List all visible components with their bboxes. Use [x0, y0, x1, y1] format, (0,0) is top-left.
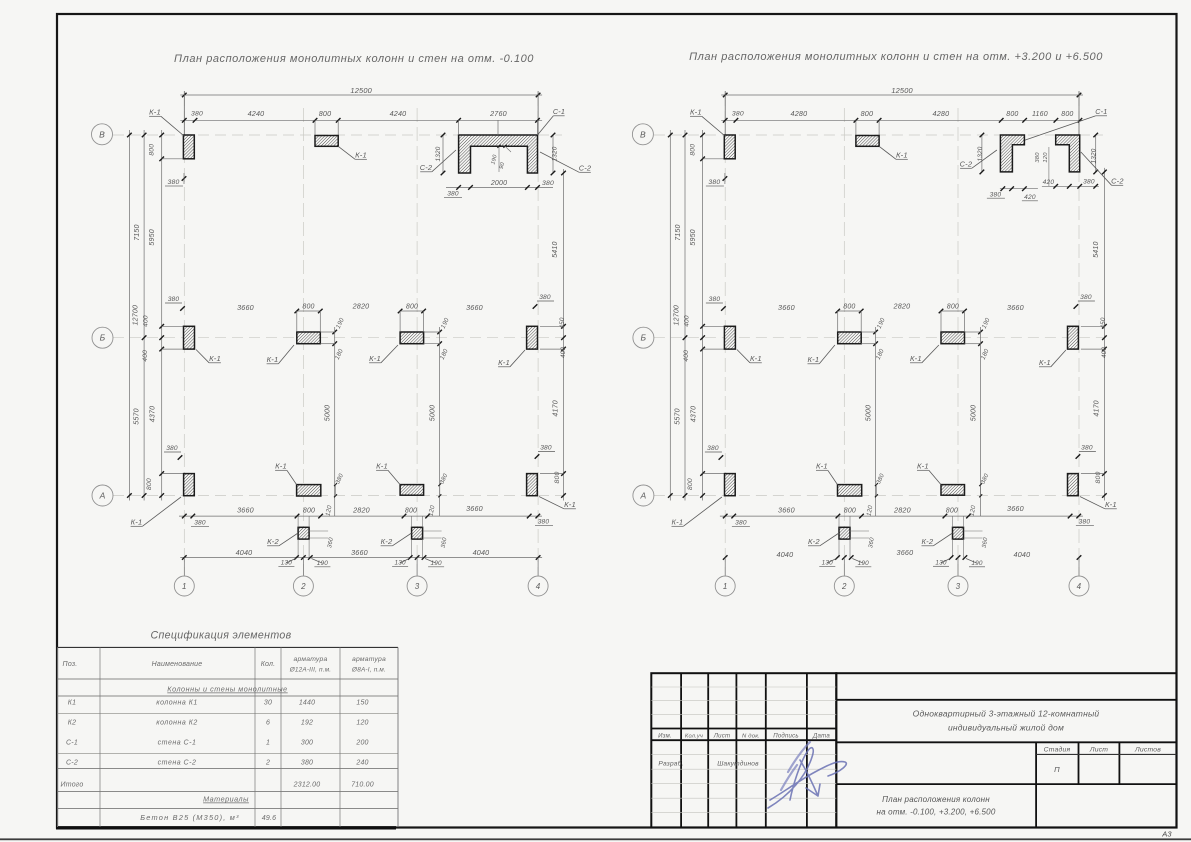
svg-text:380: 380 — [707, 445, 719, 452]
svg-text:1440: 1440 — [299, 700, 315, 707]
svg-text:Кол.: Кол. — [261, 661, 276, 668]
svg-text:800: 800 — [406, 304, 418, 311]
svg-text:2312.00: 2312.00 — [293, 782, 321, 789]
svg-text:1320: 1320 — [552, 146, 559, 161]
svg-text:1320: 1320 — [435, 146, 442, 161]
svg-text:4: 4 — [536, 582, 541, 591]
svg-text:3660: 3660 — [351, 548, 368, 557]
svg-text:450: 450 — [1100, 317, 1107, 329]
svg-text:5000: 5000 — [325, 405, 332, 421]
svg-text:Одноквартирный 3-этажный 12-ко: Одноквартирный 3-этажный 12-комнатный — [913, 709, 1100, 719]
svg-text:1: 1 — [266, 740, 270, 747]
svg-text:380: 380 — [1081, 445, 1093, 452]
svg-text:индивидуальный жилой дом: индивидуальный жилой дом — [948, 723, 1064, 733]
svg-text:на отм. -0.100, +3.200, +6.500: на отм. -0.100, +3.200, +6.500 — [877, 808, 996, 817]
svg-text:5570: 5570 — [134, 408, 141, 424]
svg-text:4240: 4240 — [248, 109, 265, 118]
svg-text:Дата: Дата — [812, 733, 830, 740]
svg-text:А3: А3 — [1161, 830, 1172, 839]
svg-text:400: 400 — [560, 347, 567, 359]
svg-text:колонна К1: колонна К1 — [156, 700, 197, 707]
svg-text:К-2: К-2 — [921, 537, 933, 546]
svg-text:3660: 3660 — [237, 506, 254, 515]
svg-text:800: 800 — [302, 304, 314, 311]
svg-text:710.00: 710.00 — [351, 782, 374, 789]
svg-text:С-2: С-2 — [420, 163, 433, 172]
svg-text:800: 800 — [687, 478, 694, 490]
svg-text:С-2: С-2 — [960, 160, 973, 169]
svg-text:4040: 4040 — [1014, 550, 1031, 559]
svg-text:4040: 4040 — [777, 550, 794, 559]
svg-text:5410: 5410 — [552, 241, 559, 257]
svg-text:380: 380 — [447, 191, 459, 198]
svg-text:400: 400 — [142, 350, 149, 362]
svg-text:3660: 3660 — [466, 504, 483, 513]
svg-text:1: 1 — [182, 582, 187, 591]
svg-text:3660: 3660 — [778, 303, 795, 312]
svg-text:800: 800 — [405, 508, 417, 515]
svg-text:К-2: К-2 — [381, 537, 393, 546]
svg-text:190: 190 — [317, 560, 329, 567]
svg-text:К-1: К-1 — [807, 355, 819, 364]
svg-text:Бетон В25 (М350), м³: Бетон В25 (М350), м³ — [140, 813, 239, 822]
svg-text:К-1: К-1 — [267, 355, 279, 364]
svg-text:К-1: К-1 — [275, 462, 287, 471]
svg-text:800: 800 — [149, 144, 156, 156]
svg-text:3660: 3660 — [897, 548, 914, 557]
svg-text:К-2: К-2 — [808, 537, 820, 546]
svg-text:К2: К2 — [68, 720, 76, 727]
svg-text:Лист: Лист — [713, 733, 731, 740]
svg-text:Ø12А-III, п.м.: Ø12А-III, п.м. — [289, 667, 332, 674]
svg-text:5000: 5000 — [430, 405, 437, 421]
svg-text:Кол.уч: Кол.уч — [685, 734, 703, 740]
svg-text:К-1: К-1 — [355, 151, 367, 160]
svg-text:240: 240 — [355, 760, 368, 767]
svg-text:К-1: К-1 — [209, 354, 221, 363]
svg-text:800: 800 — [1006, 111, 1018, 118]
svg-text:А: А — [99, 491, 106, 501]
svg-text:С-2: С-2 — [66, 760, 78, 767]
svg-text:План расположения колонн: План расположения колонн — [882, 795, 990, 804]
svg-text:400: 400 — [1101, 347, 1108, 359]
svg-text:К-1: К-1 — [1039, 358, 1051, 367]
svg-text:380: 380 — [538, 519, 550, 526]
svg-text:К-1: К-1 — [816, 462, 828, 471]
svg-text:800: 800 — [946, 508, 958, 515]
svg-text:С-2: С-2 — [579, 164, 592, 173]
svg-text:2820: 2820 — [893, 506, 911, 515]
svg-text:Шакутдинов: Шакутдинов — [717, 760, 759, 768]
svg-text:3660: 3660 — [237, 303, 254, 312]
svg-text:К-1: К-1 — [690, 108, 702, 117]
svg-text:2000: 2000 — [490, 180, 507, 187]
svg-text:К1: К1 — [68, 700, 76, 707]
svg-text:2820: 2820 — [352, 506, 370, 515]
svg-text:Колонны и стены монолитные: Колонны и стены монолитные — [167, 685, 287, 694]
svg-text:Листов: Листов — [1134, 747, 1161, 754]
svg-text:400: 400 — [683, 315, 690, 327]
svg-text:420: 420 — [1024, 194, 1036, 201]
svg-text:420: 420 — [1043, 179, 1055, 186]
svg-text:4040: 4040 — [236, 548, 253, 557]
svg-text:190: 190 — [430, 560, 442, 567]
svg-text:А: А — [639, 491, 646, 501]
svg-text:4280: 4280 — [791, 109, 808, 118]
svg-text:12500: 12500 — [891, 86, 913, 95]
svg-text:К-1: К-1 — [131, 518, 143, 527]
svg-text:N док.: N док. — [742, 734, 760, 740]
svg-text:12500: 12500 — [350, 86, 372, 95]
svg-text:3: 3 — [956, 582, 961, 591]
svg-text:1320: 1320 — [977, 146, 984, 161]
svg-text:4170: 4170 — [1093, 400, 1100, 416]
svg-text:380: 380 — [191, 111, 203, 118]
svg-text:4: 4 — [1077, 582, 1082, 591]
svg-text:2820: 2820 — [352, 302, 370, 311]
svg-text:190: 190 — [971, 560, 983, 567]
svg-text:2760: 2760 — [489, 109, 507, 118]
svg-text:2: 2 — [265, 760, 270, 767]
svg-text:5410: 5410 — [1093, 241, 1100, 257]
svg-text:200: 200 — [355, 740, 368, 747]
svg-text:Изм.: Изм. — [658, 733, 672, 740]
svg-text:800: 800 — [843, 304, 855, 311]
svg-text:380: 380 — [540, 445, 552, 452]
svg-text:1160: 1160 — [1032, 111, 1048, 118]
svg-text:Материалы: Материалы — [203, 795, 249, 804]
svg-text:800: 800 — [146, 478, 153, 490]
svg-text:3660: 3660 — [778, 506, 795, 515]
svg-text:4370: 4370 — [690, 406, 697, 422]
svg-text:800: 800 — [844, 508, 856, 515]
svg-text:К-1: К-1 — [671, 518, 683, 527]
svg-text:Разраб.: Разраб. — [658, 760, 683, 768]
svg-text:800: 800 — [1061, 111, 1073, 118]
svg-text:120: 120 — [1043, 152, 1049, 163]
svg-text:Стадия: Стадия — [1044, 746, 1071, 754]
svg-text:К-1: К-1 — [896, 151, 908, 160]
svg-text:К-1: К-1 — [149, 108, 161, 117]
svg-text:Наименование: Наименование — [152, 661, 203, 668]
svg-text:В: В — [99, 129, 105, 139]
svg-text:800: 800 — [303, 508, 315, 515]
svg-text:С-1: С-1 — [66, 740, 78, 747]
svg-text:Спецификация элементов: Спецификация элементов — [150, 630, 291, 642]
svg-text:4240: 4240 — [390, 109, 407, 118]
svg-text:380: 380 — [990, 191, 1002, 198]
svg-text:300: 300 — [301, 740, 313, 747]
svg-text:4040: 4040 — [473, 548, 490, 557]
svg-text:1320: 1320 — [1091, 148, 1098, 163]
svg-text:стена С-2: стена С-2 — [158, 760, 197, 767]
svg-text:5950: 5950 — [149, 229, 156, 245]
svg-text:380: 380 — [1083, 179, 1095, 186]
svg-text:3660: 3660 — [1007, 504, 1024, 513]
svg-text:800: 800 — [689, 144, 696, 156]
svg-text:К-2: К-2 — [267, 537, 279, 546]
svg-text:2: 2 — [841, 582, 847, 591]
svg-text:380: 380 — [732, 111, 744, 118]
svg-text:190: 190 — [858, 560, 870, 567]
svg-text:5000: 5000 — [970, 405, 977, 421]
svg-text:6: 6 — [266, 720, 270, 727]
svg-text:К-1: К-1 — [369, 354, 381, 363]
svg-text:12700: 12700 — [133, 305, 140, 325]
svg-text:30: 30 — [264, 700, 272, 707]
svg-text:800: 800 — [319, 109, 332, 118]
svg-text:К-1: К-1 — [1105, 500, 1117, 509]
svg-text:К-1: К-1 — [917, 462, 929, 471]
svg-text:5000: 5000 — [865, 405, 872, 421]
svg-text:380: 380 — [1079, 519, 1091, 526]
svg-text:4280: 4280 — [933, 109, 950, 118]
svg-text:П: П — [1054, 765, 1060, 774]
svg-text:5950: 5950 — [690, 229, 697, 245]
svg-text:380: 380 — [1035, 152, 1041, 163]
svg-text:5570: 5570 — [674, 408, 681, 424]
svg-text:12700: 12700 — [673, 305, 680, 325]
svg-text:3660: 3660 — [466, 303, 483, 312]
svg-text:380: 380 — [168, 179, 180, 186]
svg-text:Б: Б — [641, 333, 647, 343]
svg-text:План расположения монолитных к: План расположения монолитных колонн и ст… — [689, 51, 1103, 63]
svg-text:380: 380 — [194, 520, 206, 527]
svg-text:7150: 7150 — [134, 224, 141, 240]
svg-text:49.6: 49.6 — [262, 815, 276, 822]
svg-text:450: 450 — [559, 317, 566, 329]
svg-text:380: 380 — [708, 179, 720, 186]
svg-text:С-1: С-1 — [1095, 107, 1107, 116]
svg-text:4170: 4170 — [553, 400, 560, 416]
svg-text:С-1: С-1 — [553, 107, 565, 116]
svg-text:380: 380 — [539, 294, 551, 301]
svg-text:арматура: арматура — [352, 656, 386, 663]
svg-text:Итого: Итого — [61, 782, 84, 789]
svg-text:380: 380 — [709, 296, 721, 303]
svg-text:380: 380 — [542, 180, 554, 187]
svg-text:800: 800 — [861, 109, 874, 118]
svg-text:192: 192 — [301, 720, 313, 727]
svg-text:План расположения монолитных к: План расположения монолитных колонн и ст… — [174, 53, 534, 65]
svg-text:150: 150 — [356, 700, 368, 707]
svg-text:380: 380 — [735, 520, 747, 527]
svg-text:400: 400 — [683, 350, 690, 362]
svg-text:Поз.: Поз. — [63, 661, 78, 668]
svg-text:3660: 3660 — [1007, 303, 1024, 312]
svg-text:380: 380 — [166, 445, 178, 452]
svg-text:К-1: К-1 — [910, 354, 922, 363]
svg-text:Подпись: Подпись — [773, 733, 799, 740]
svg-text:Б: Б — [100, 333, 106, 343]
svg-text:Лист: Лист — [1089, 747, 1108, 754]
svg-text:3: 3 — [415, 582, 420, 591]
svg-text:400: 400 — [143, 315, 150, 327]
svg-text:арматура: арматура — [294, 656, 328, 663]
svg-text:К-1: К-1 — [498, 358, 510, 367]
svg-text:4370: 4370 — [150, 406, 157, 422]
svg-text:380: 380 — [301, 760, 313, 767]
svg-text:800: 800 — [947, 304, 959, 311]
svg-text:120: 120 — [356, 720, 368, 727]
svg-text:Ø8А-I, п.м.: Ø8А-I, п.м. — [351, 667, 386, 674]
svg-text:7150: 7150 — [675, 224, 682, 240]
svg-text:380: 380 — [168, 296, 180, 303]
svg-text:2820: 2820 — [893, 302, 911, 311]
svg-text:2: 2 — [300, 582, 306, 591]
svg-text:К-1: К-1 — [564, 500, 576, 509]
svg-text:С-2: С-2 — [1111, 177, 1124, 186]
svg-text:К-1: К-1 — [750, 354, 762, 363]
svg-text:стена С-1: стена С-1 — [158, 740, 197, 747]
svg-text:В: В — [640, 129, 646, 139]
svg-text:колонна К2: колонна К2 — [156, 720, 197, 727]
svg-text:380: 380 — [1080, 294, 1092, 301]
svg-text:1: 1 — [723, 582, 728, 591]
svg-text:К-1: К-1 — [376, 462, 388, 471]
